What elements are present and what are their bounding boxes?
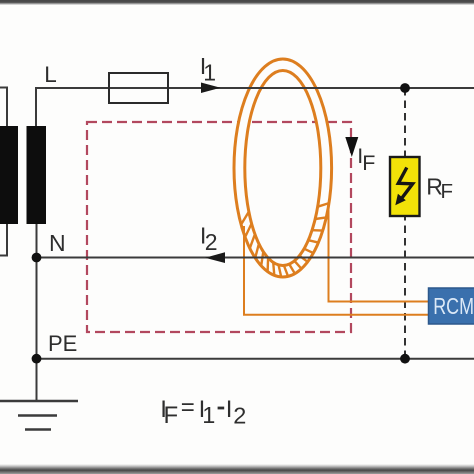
svg-text:1: 1 <box>202 402 215 428</box>
CT secondary wire (right lead to RCM) <box>329 208 429 302</box>
node N junction <box>32 253 42 263</box>
node L-RF junction <box>400 83 410 93</box>
svg-text:N: N <box>49 230 66 256</box>
svg-text:F: F <box>362 151 375 175</box>
svg-text:L: L <box>44 62 57 87</box>
svg-text:PE: PE <box>48 331 77 356</box>
arrow IF (down) <box>345 137 358 157</box>
svg-text:I: I <box>226 396 233 423</box>
ground (earth) symbol <box>0 401 78 430</box>
svg-text:2: 2 <box>205 229 218 255</box>
wire L line <box>35 87 474 89</box>
node PE junction left <box>32 354 42 364</box>
dashed boundary box (red) <box>87 122 351 332</box>
wire PE line <box>36 358 474 360</box>
lightning bolt in RF <box>398 168 412 198</box>
CT winding hatch <box>241 203 329 277</box>
svg-text:1: 1 <box>203 59 216 85</box>
bottom border bar <box>0 464 474 474</box>
wire N line <box>36 257 474 259</box>
fuse F1 <box>109 73 168 103</box>
wire primary stub top <box>0 88 7 128</box>
svg-text:2: 2 <box>233 403 246 429</box>
svg-text:RCM: RCM <box>433 294 474 320</box>
node PE-RF junction <box>400 354 410 364</box>
wire L drop to transformer <box>35 88 37 127</box>
arrow I1 (right) <box>201 83 221 94</box>
wire transformer to ground vertical <box>36 223 38 401</box>
top border bar <box>0 0 474 5</box>
svg-text:F: F <box>441 180 454 203</box>
transformer winding bar left <box>0 126 18 224</box>
CT secondary wire (left lead to RCM) <box>244 226 429 315</box>
svg-text:F: F <box>164 402 179 429</box>
CT toroid ring (orange, white band) <box>234 59 332 277</box>
transformer winding bar right <box>27 126 47 224</box>
wire primary stub bottom <box>0 223 7 256</box>
resistor RF (fault, yellow box) <box>390 157 420 216</box>
svg-text:=: = <box>181 394 195 421</box>
dashed fault-current path (L to PE via RF) <box>404 88 406 359</box>
RCM monitor box <box>429 288 474 324</box>
arrow I2 (left) <box>205 252 225 263</box>
